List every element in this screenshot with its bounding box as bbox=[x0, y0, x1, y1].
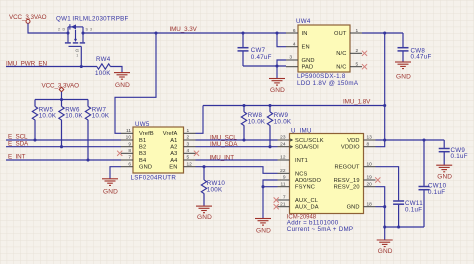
IC U_IMU ICM-20948 body bbox=[287, 128, 364, 233]
junction VDD/riser bbox=[383, 138, 386, 141]
gate plate of QW1 bbox=[69, 45, 82, 47]
svg-text:0.1uF: 0.1uF bbox=[428, 189, 445, 196]
pin 11 VrefB of UW5 bbox=[121, 128, 154, 137]
svg-text:2: 2 bbox=[356, 48, 359, 54]
pin 4 EN of UW4 bbox=[286, 41, 310, 50]
svg-text:GND: GND bbox=[437, 174, 452, 181]
svg-text:3: 3 bbox=[289, 55, 292, 61]
svg-text:GND: GND bbox=[302, 58, 315, 64]
svg-text:9: 9 bbox=[128, 141, 131, 147]
svg-text:18: 18 bbox=[367, 201, 373, 207]
wire VDDIO jog bbox=[376, 140, 385, 147]
svg-text:AD0/SDO: AD0/SDO bbox=[295, 178, 321, 184]
svg-text:13: 13 bbox=[367, 135, 373, 141]
pin 24 SDA/SDI of U_IMU bbox=[278, 141, 320, 150]
pin 11 FSYNC of U_IMU bbox=[278, 181, 316, 190]
svg-text:10: 10 bbox=[367, 161, 373, 167]
resistor RW6 10.0K bbox=[59, 100, 84, 147]
pin 6 IN of UW4 bbox=[286, 28, 308, 37]
channel plates of QW1 bbox=[65, 42, 85, 44]
pin 12 INT1 of U_IMU bbox=[278, 155, 308, 164]
junction rail/VrefB riser bbox=[154, 31, 157, 34]
junction VCC bus bbox=[60, 98, 63, 101]
junction RW9/IMU_1.8V bbox=[268, 104, 271, 107]
svg-text:A2: A2 bbox=[170, 145, 177, 151]
svg-text:24: 24 bbox=[280, 141, 286, 147]
pin 12 EN of UW5 bbox=[169, 161, 195, 170]
svg-text:GND: GND bbox=[139, 165, 152, 171]
pin 6 GND of UW5 bbox=[121, 161, 152, 170]
svg-text:PAD: PAD bbox=[302, 65, 314, 71]
svg-text:5: 5 bbox=[187, 155, 190, 161]
junction riser/IMU_1.8V rail bbox=[383, 104, 386, 107]
pin 4 A3 of UW5 (no connect) bbox=[170, 148, 199, 157]
junction FSYNC/gnd column bbox=[261, 185, 264, 188]
wire REGOUT to CW11 bbox=[376, 167, 399, 201]
wire IMU_PWR_EN bbox=[6, 66, 97, 68]
wire IMU_SDA bbox=[196, 146, 278, 148]
svg-text:10.0K: 10.0K bbox=[65, 113, 83, 120]
svg-text:0.1uF: 0.1uF bbox=[405, 207, 422, 214]
svg-text:A1: A1 bbox=[170, 138, 177, 144]
ground GND (UW5) bbox=[102, 179, 118, 196]
resistor RW5 10.0K bbox=[32, 100, 57, 141]
svg-text:IN: IN bbox=[302, 31, 308, 37]
wire E_SDA bbox=[6, 146, 121, 148]
junction RW7/E_INT bbox=[86, 158, 89, 161]
svg-text:100K: 100K bbox=[95, 70, 111, 77]
pin 2 A1 of UW5 bbox=[170, 135, 195, 144]
wire CW7 bottom to UW4 PAD bbox=[243, 65, 286, 67]
svg-text:VDD: VDD bbox=[347, 138, 359, 144]
svg-text:GND: GND bbox=[197, 214, 212, 221]
resistor RW7 10.0K bbox=[85, 100, 110, 161]
wire UW4 OUT to CW8 bbox=[362, 32, 403, 34]
svg-text:6: 6 bbox=[293, 28, 296, 34]
wire pin18 GND bbox=[376, 207, 385, 227]
wire bottom gnd bus bbox=[385, 226, 424, 228]
svg-text:22: 22 bbox=[280, 168, 286, 174]
ground GND (bottom) bbox=[377, 240, 393, 255]
wire FSYNC to gnd column bbox=[263, 186, 278, 188]
capacitor CW7 0.47uF bbox=[238, 33, 272, 66]
pin 20 RESV_20 of U_IMU bbox=[334, 181, 376, 190]
svg-text:100K: 100K bbox=[207, 186, 223, 193]
transistor QW1 bbox=[56, 16, 129, 58]
pin 22 NCS of U_IMU bbox=[278, 168, 308, 177]
wire IMU_3.3V rail bbox=[83, 32, 286, 34]
pin 23 SCL/SCLK of U_IMU bbox=[278, 135, 324, 144]
svg-text:OUT: OUT bbox=[334, 31, 347, 37]
svg-text:2: 2 bbox=[187, 135, 190, 141]
pin 7 B4 of UW5 bbox=[121, 155, 146, 164]
svg-text:9: 9 bbox=[283, 175, 286, 181]
svg-text:GND: GND bbox=[378, 248, 393, 255]
junction RW5/E_SCL bbox=[33, 138, 36, 141]
pin 8 VDDIO of U_IMU bbox=[341, 141, 376, 150]
wire rail to UW4 EN bbox=[277, 33, 286, 47]
svg-text:SCL/SCLK: SCL/SCLK bbox=[295, 138, 324, 144]
svg-text:10.0K: 10.0K bbox=[39, 113, 57, 120]
svg-text:12: 12 bbox=[187, 161, 193, 167]
svg-text:23: 23 bbox=[280, 135, 286, 141]
svg-text:N/C: N/C bbox=[336, 51, 346, 57]
pin 19 RESV_19 of U_IMU (no connect) bbox=[334, 175, 381, 184]
svg-text:1: 1 bbox=[356, 28, 359, 34]
junction VDD/CW10 bbox=[422, 138, 425, 141]
power port VCC_3.3VAO (circle) bbox=[9, 14, 47, 23]
junction RW8/IMU_1.8V bbox=[242, 104, 245, 107]
pin 9 B2 of UW5 bbox=[121, 141, 146, 150]
svg-text:NCS: NCS bbox=[295, 171, 308, 177]
pin 5 A4 of UW5 bbox=[170, 155, 195, 164]
op-amp UW5 LSF0204RUTR body bbox=[131, 121, 184, 182]
wire pullup bus bbox=[35, 99, 88, 101]
ground GND (RW4) bbox=[114, 73, 130, 90]
capacitor CW11 0.1uF bbox=[393, 200, 423, 227]
svg-text:AUX_CL: AUX_CL bbox=[295, 198, 318, 204]
svg-text:E_SCL: E_SCL bbox=[8, 133, 28, 140]
svg-text:IMU_3.3V: IMU_3.3V bbox=[170, 26, 198, 33]
junction GND/PAD bbox=[275, 64, 278, 67]
svg-text:GND: GND bbox=[270, 87, 285, 94]
resistor RW4 100K bbox=[95, 56, 111, 77]
svg-text:1: 1 bbox=[187, 128, 190, 134]
svg-text:Current ~ 5mA + DMP: Current ~ 5mA + DMP bbox=[287, 226, 354, 233]
svg-text:3: 3 bbox=[187, 141, 190, 147]
svg-text:G: G bbox=[75, 48, 79, 53]
pin 13 VDD of U_IMU bbox=[347, 135, 375, 144]
svg-text:FSYNC: FSYNC bbox=[295, 185, 315, 191]
resistor RW9 10.0K bbox=[267, 106, 292, 147]
pin 3 GND of UW4 bbox=[286, 55, 315, 64]
wire UW5 GND pin to ground bbox=[110, 167, 121, 179]
svg-text:GND: GND bbox=[115, 82, 130, 89]
svg-text:1: 1 bbox=[76, 54, 78, 58]
svg-text:4: 4 bbox=[293, 41, 296, 47]
junction pin18/RESV20 bbox=[383, 205, 386, 208]
svg-text:11: 11 bbox=[126, 128, 131, 134]
svg-text:QW1: QW1 bbox=[56, 16, 71, 23]
svg-text:4: 4 bbox=[187, 148, 190, 154]
wire VDD to CW9 bbox=[376, 139, 445, 141]
junction gnd bus CW11 bbox=[397, 225, 400, 228]
junction rail/CW7 bbox=[241, 31, 244, 34]
capacitor CW9 0.1uF bbox=[439, 140, 468, 165]
wire PAD junction down bbox=[276, 66, 278, 78]
svg-text:INT1: INT1 bbox=[295, 158, 308, 164]
ground GND (CW9) bbox=[436, 165, 452, 180]
svg-text:RESV_20: RESV_20 bbox=[334, 185, 360, 191]
junction EN/RW10 bbox=[202, 165, 205, 168]
body diode of QW1 bbox=[71, 24, 76, 29]
junction RW6/E_SDA bbox=[60, 145, 63, 148]
capacitor CW8 0.47uF bbox=[398, 33, 432, 62]
svg-text:VDDIO: VDDIO bbox=[341, 145, 360, 151]
wire IMU_1.8V rail bbox=[203, 105, 385, 107]
svg-text:B2: B2 bbox=[139, 145, 146, 151]
svg-text:EN: EN bbox=[169, 165, 177, 171]
svg-text:0.1uF: 0.1uF bbox=[451, 153, 468, 160]
svg-text:AUX_DA: AUX_DA bbox=[295, 205, 319, 211]
resistor RW8 10.0K bbox=[241, 106, 266, 141]
svg-text:N/C: N/C bbox=[336, 65, 346, 71]
svg-text:RW4: RW4 bbox=[96, 56, 111, 63]
pin 9 AD0/SDO of U_IMU bbox=[278, 175, 322, 184]
pin 3 A2 of UW5 bbox=[170, 141, 195, 150]
svg-text:10.0K: 10.0K bbox=[274, 119, 292, 126]
pin 10 REGOUT of U_IMU bbox=[334, 161, 375, 170]
wire VCC_3.3VAO to Q1 source bbox=[28, 23, 68, 33]
svg-text:REGOUT: REGOUT bbox=[334, 165, 360, 171]
ground GND (AD0/FSYNC) bbox=[255, 219, 271, 235]
wire RW4 to GND bbox=[110, 67, 122, 73]
svg-text:GND: GND bbox=[347, 205, 360, 211]
pin 5 N/C of UW4 (no connect) bbox=[336, 61, 367, 70]
svg-text:VrefB: VrefB bbox=[139, 131, 154, 137]
svg-text:12: 12 bbox=[280, 155, 286, 161]
svg-text:10.0K: 10.0K bbox=[92, 113, 110, 120]
svg-text:6: 6 bbox=[128, 161, 131, 167]
svg-text:SDA/SDI: SDA/SDI bbox=[295, 145, 319, 151]
svg-text:A4: A4 bbox=[170, 158, 177, 164]
svg-text:VrefA: VrefA bbox=[163, 131, 178, 137]
wire VrefA to IMU_1.8V rail bbox=[196, 106, 204, 134]
svg-text:LDO 1.8V @ 150mA: LDO 1.8V @ 150mA bbox=[297, 80, 359, 87]
power port VCC_3.3VAO (diamond) bbox=[42, 82, 80, 91]
wire AD0/SDO to gnd column bbox=[263, 180, 278, 218]
svg-text:11: 11 bbox=[281, 181, 286, 187]
wire RESV_20 to gnd bbox=[376, 187, 385, 207]
junction rail/EN riser bbox=[275, 31, 278, 34]
svg-text:3: 3 bbox=[90, 28, 92, 32]
capacitor CW10 0.1uF bbox=[419, 140, 447, 227]
svg-text:IRLML2030TRPBF: IRLML2030TRPBF bbox=[72, 16, 128, 23]
svg-text:0.47uF: 0.47uF bbox=[251, 54, 272, 61]
wire E_SCL bbox=[6, 139, 121, 141]
wire UW5 EN to ICM NCS bbox=[196, 167, 278, 174]
svg-text:10: 10 bbox=[126, 135, 132, 141]
svg-text:GND: GND bbox=[396, 74, 411, 81]
svg-text:GND: GND bbox=[256, 228, 271, 235]
ground GND (UW4) bbox=[269, 79, 285, 95]
svg-text:7: 7 bbox=[283, 195, 286, 201]
svg-text:GND: GND bbox=[103, 188, 118, 195]
svg-text:21: 21 bbox=[280, 201, 286, 207]
pin 18 GND of U_IMU bbox=[347, 201, 376, 210]
pin 21 AUX_DA of U_IMU (no connect) bbox=[274, 201, 319, 210]
wire E_INT bbox=[6, 159, 121, 161]
pin PAD of UW4 bbox=[286, 65, 313, 71]
svg-text:7: 7 bbox=[128, 155, 131, 161]
svg-text:B3: B3 bbox=[139, 151, 146, 157]
pin 8 B3 of UW5 (no connect) bbox=[117, 148, 146, 157]
junction dots QW1 source/drain bbox=[66, 31, 69, 34]
junction gate/IMU_PWR_EN bbox=[80, 65, 83, 68]
svg-text:8: 8 bbox=[128, 148, 131, 154]
svg-text:B1: B1 bbox=[139, 138, 146, 144]
junction gnd bus left bbox=[383, 225, 386, 228]
svg-text:RESV_19: RESV_19 bbox=[334, 178, 360, 184]
ground GND (RW10) bbox=[196, 206, 212, 221]
svg-text:UW4: UW4 bbox=[296, 18, 311, 25]
svg-text:8: 8 bbox=[367, 141, 370, 147]
pin 7 AUX_CL of U_IMU (no connect) bbox=[274, 195, 318, 204]
wire gnd bus stem bbox=[384, 227, 386, 240]
wire IMU_SCL bbox=[196, 139, 278, 141]
svg-text:10.0K: 10.0K bbox=[248, 119, 266, 126]
svg-text:20: 20 bbox=[367, 181, 373, 187]
wire VrefB riser to IMU_3.3V bbox=[115, 33, 156, 133]
wire VCC diamond to bus bbox=[61, 92, 63, 100]
pin 1 VrefA of UW5 bbox=[163, 128, 196, 137]
arrow on QW1 bulk bbox=[74, 39, 77, 42]
pin 1 OUT of UW4 bbox=[334, 28, 362, 37]
wire UW4 GND jog bbox=[277, 60, 286, 66]
svg-text:IMU_1.8V: IMU_1.8V bbox=[343, 99, 371, 106]
wire QW1 gate down to IMU_PWR_EN bbox=[80, 46, 82, 66]
svg-text:LSF0204RUTR: LSF0204RUTR bbox=[131, 175, 177, 182]
svg-text:2: 2 bbox=[58, 28, 60, 32]
svg-text:A3: A3 bbox=[170, 151, 177, 157]
junction RW9/IMU_SDA bbox=[268, 145, 271, 148]
ground GND (CW8) bbox=[395, 62, 411, 81]
svg-text:5: 5 bbox=[356, 61, 359, 67]
svg-text:D: D bbox=[63, 28, 66, 32]
resistor RW10 100K bbox=[201, 167, 225, 206]
svg-text:LP5900SDX-1.8: LP5900SDX-1.8 bbox=[297, 73, 346, 80]
svg-text:19: 19 bbox=[367, 175, 373, 181]
svg-text:0.47uF: 0.47uF bbox=[411, 54, 432, 61]
op-amp UW4 LP5900SDX-1.8 body bbox=[296, 18, 359, 87]
junction RW8/IMU_SCL bbox=[242, 138, 245, 141]
svg-text:EN: EN bbox=[302, 45, 310, 51]
junction OUT/1.8V riser bbox=[383, 31, 386, 34]
wire IMU_INT bbox=[196, 159, 278, 161]
svg-text:B4: B4 bbox=[139, 158, 146, 164]
wire OUT riser down to VDD bbox=[384, 33, 386, 140]
pin 2 N/C of UW4 (no connect) bbox=[336, 48, 367, 57]
pin 10 B1 of UW5 bbox=[121, 135, 146, 144]
